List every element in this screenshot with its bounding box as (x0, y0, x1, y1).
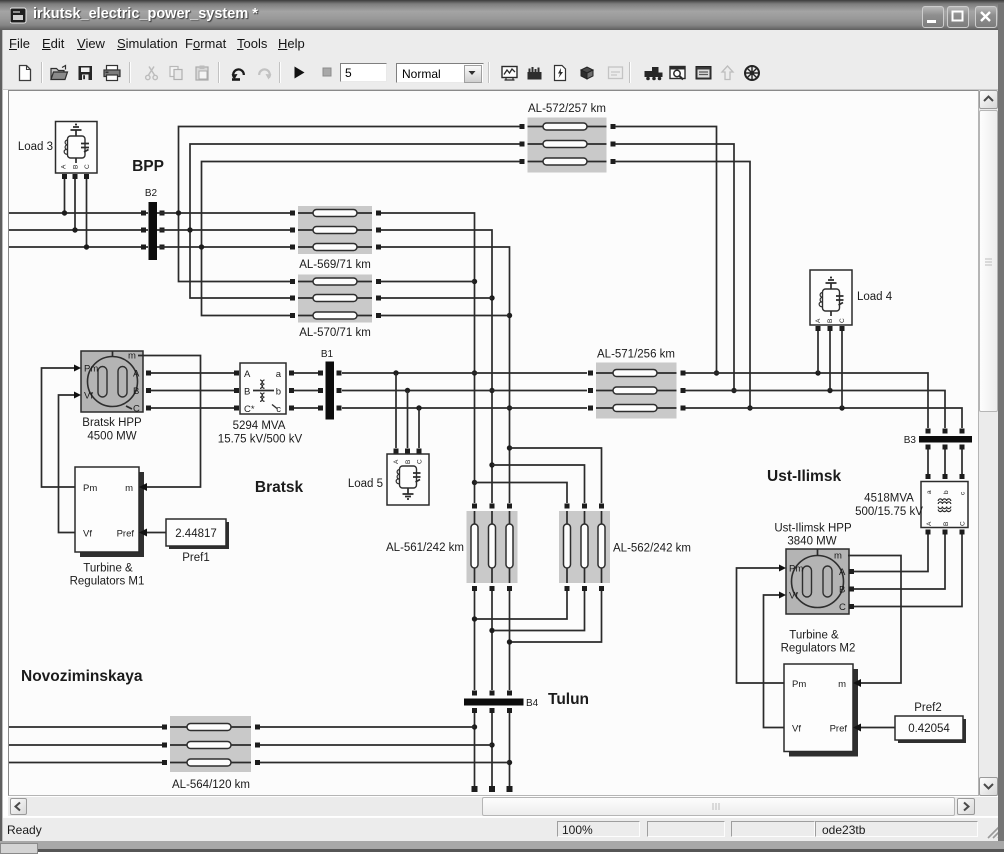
wire AL-570 out phase C (381, 315, 510, 317)
svg-text:C: C (839, 602, 846, 613)
wire B2 to AL-569 phase A (157, 212, 290, 214)
label B1 (321, 349, 334, 360)
bus B4 (464, 691, 524, 714)
transformer 5294 MVA (234, 363, 294, 415)
label Ust-Ilimsk (767, 468, 841, 485)
wire AL-572 out phase A drop (615, 127, 719, 376)
svg-text:2.44817: 2.44817 (175, 528, 217, 540)
svg-text:Vf: Vf (84, 391, 93, 402)
svg-text:5294 MVA: 5294 MVA (233, 420, 286, 432)
bus B3 (919, 429, 972, 450)
label Ust-Ilimsk HPP 3840 MW (774, 523, 852, 548)
svg-text:A: A (393, 459, 400, 464)
svg-text:Load 5: Load 5 (348, 478, 383, 490)
svg-text:C: C (839, 318, 846, 323)
wire Pref1 to turbine M1 (147, 532, 166, 534)
svg-text:15.75 kV/500 kV: 15.75 kV/500 kV (218, 434, 303, 446)
wire B2 to AL-569 phase B (157, 229, 290, 231)
wire gen m to turbine M2 (848, 556, 901, 684)
wire Load4 phase B drop (829, 331, 831, 391)
label Load 5 (348, 478, 383, 490)
wire Load3 phase C drop (84, 179, 89, 250)
wire turbine M2 Vf to gen (764, 595, 785, 728)
label Bratsk (255, 479, 304, 496)
wire AL-562 out phase A join (477, 591, 567, 619)
wire transformer b to B1 (294, 390, 318, 392)
label BPP (132, 158, 164, 175)
svg-text:Vf: Vf (792, 724, 801, 735)
wire AL-562 out phase B join (494, 591, 585, 631)
svg-text:0.42054: 0.42054 (908, 723, 950, 735)
svg-text:m: m (125, 483, 133, 494)
minimize button (922, 6, 944, 28)
svg-text:Regulators M1: Regulators M1 (70, 576, 145, 588)
svg-text:Pm: Pm (83, 483, 97, 494)
svg-text:A: A (61, 164, 68, 169)
label Tulun (548, 691, 589, 708)
svg-text:3840 MW: 3840 MW (787, 536, 836, 548)
wire branch to AL-562 phase C (510, 448, 602, 503)
wire B3 to transformer a (927, 450, 929, 476)
maximize button (947, 6, 969, 28)
vertical scrollbar (979, 90, 998, 796)
svg-text:Vf: Vf (789, 591, 798, 602)
wire riser phase B to AL-572 and AL-570 (187, 144, 521, 298)
svg-text:B: B (73, 165, 80, 169)
svg-text:m: m (834, 551, 842, 562)
horizontal scrollbar (8, 797, 998, 816)
svg-text:Load 3: Load 3 (18, 141, 53, 153)
transmission line block AL-569 (290, 206, 381, 254)
transmission line block AL-572 (520, 118, 616, 173)
svg-text:Ust-Ilimsk: Ust-Ilimsk (767, 468, 841, 485)
transmission line block AL-562 (vertical) (559, 504, 610, 592)
svg-text:m: m (838, 679, 846, 690)
svg-text:A: A (926, 521, 933, 526)
constant block Pref2 (895, 716, 966, 743)
svg-text:Pm: Pm (789, 564, 803, 575)
label Bratsk HPP 4500 MW (82, 417, 142, 443)
label AL-569/71 km (299, 259, 371, 271)
svg-text:BPP: BPP (132, 158, 164, 175)
label AL-562/242 km (613, 543, 691, 555)
svg-text:B2: B2 (145, 188, 158, 199)
label Load 3 (18, 141, 53, 153)
wire Load4 phase A drop (817, 331, 819, 373)
svg-text:a: a (926, 490, 933, 494)
wire Load5 phase B drop (407, 391, 409, 449)
wire transformer a to B1 (294, 372, 318, 374)
wire gen B to transformer (151, 390, 234, 392)
turbine block Turbine & Regulators M1 (75, 467, 147, 557)
label B3 (904, 435, 917, 446)
transformer 4518 MVA (921, 474, 968, 535)
svg-text:Bratsk HPP: Bratsk HPP (82, 417, 142, 429)
load block Load 3 (56, 122, 98, 180)
label Turbine & Regulators M2 (781, 630, 856, 655)
svg-text:a: a (276, 369, 282, 380)
label Novoziminskaya (21, 668, 143, 685)
label Load 4 (857, 291, 893, 303)
wire gen C to transformer (151, 407, 234, 409)
wire branch to AL-562 phase A (475, 483, 568, 504)
wire transformer A to gen A (854, 535, 928, 572)
svg-text:4500 MW: 4500 MW (87, 431, 136, 443)
status bar (3, 817, 1001, 842)
wire AL-561 out phase B to B4 (489, 591, 494, 690)
label AL-561/242 km (386, 542, 464, 554)
wire AL-570 out phase B (381, 297, 492, 299)
svg-text:B: B (943, 522, 950, 526)
svg-text:Ust-Ilimsk HPP: Ust-Ilimsk HPP (774, 523, 852, 535)
svg-text:Novoziminskaya: Novoziminskaya (21, 668, 143, 685)
svg-text:Pref1: Pref1 (182, 552, 210, 564)
wire Pref2 to turbine M2 (861, 727, 895, 729)
wire AL-561 out phase A to B4 (472, 591, 477, 690)
bus B1 (318, 362, 342, 420)
svg-text:Pm: Pm (792, 679, 806, 690)
wire Load3 phase B drop (72, 179, 77, 233)
wire AL-571 out phase B to B3 (686, 388, 946, 428)
wire B1 to AL-571 phase C (342, 405, 587, 410)
svg-text:Pref2: Pref2 (914, 702, 942, 714)
wire AL-561 out phase C to B4 (507, 591, 512, 690)
wire Load5 phase A drop (395, 373, 397, 448)
svg-text:AL-570/71 km: AL-570/71 km (299, 327, 371, 339)
window title bar (0, 0, 1004, 30)
label AL-572/257 km (528, 103, 606, 115)
wire turbine M2 Pm to gen (737, 568, 785, 683)
wire B1 to AL-571 phase B (342, 388, 587, 393)
svg-text:m: m (128, 351, 136, 362)
wire AL-571 out phase C to B3 (686, 405, 963, 428)
wire gen m to turbine M1 (138, 356, 201, 488)
svg-text:A: A (839, 567, 846, 578)
wire transformer c to B1 (294, 407, 318, 409)
svg-text:B3: B3 (904, 435, 917, 446)
svg-text:b: b (276, 387, 281, 398)
svg-text:b: b (943, 490, 950, 494)
wire B2 phase C from left edge (9, 246, 148, 248)
wire AL-564 out phase C (260, 762, 510, 764)
svg-text:Load 4: Load 4 (857, 291, 893, 303)
svg-text:AL-569/71 km: AL-569/71 km (299, 259, 371, 271)
label B2 (145, 188, 158, 199)
wire B3 to transformer c (961, 450, 963, 476)
bus B2 (141, 202, 165, 260)
svg-text:AL-561/242 km: AL-561/242 km (386, 542, 464, 554)
svg-text:C*: C* (244, 404, 255, 415)
load block Load 4 (810, 270, 852, 331)
label 5294 MVA 15.75 kV/500 kV (218, 420, 303, 446)
label B4 (526, 698, 539, 709)
label AL-564/120 km (172, 779, 250, 791)
svg-text:Turbine &: Turbine & (83, 563, 133, 575)
wire B4 down phase A (472, 713, 478, 792)
wire B4 down phase C (507, 713, 513, 792)
svg-text:Turbine &: Turbine & (789, 630, 839, 642)
wire Novoziminskaya phase C (9, 762, 164, 764)
label Pref1 (182, 552, 210, 564)
wire B1 to AL-571 phase A (342, 370, 587, 375)
wire B2 phase A from left edge (9, 212, 148, 214)
wire Novoziminskaya phase B (9, 744, 164, 746)
wire AL-571 out phase A to B3 (686, 370, 929, 428)
svg-text:Pref: Pref (830, 724, 848, 735)
wire B2 phase B from left edge (9, 229, 148, 231)
svg-text:B: B (839, 585, 845, 596)
generator Bratsk HPP (74, 351, 151, 415)
constant block Pref1 (166, 519, 229, 549)
svg-text:c: c (276, 404, 281, 415)
wire gen A to transformer (151, 372, 234, 374)
wire transformer B to gen B (854, 535, 945, 590)
label AL-571/256 km (597, 349, 675, 361)
svg-text:B: B (244, 387, 250, 398)
wire Load4 phase C drop (841, 331, 843, 408)
wire AL-569 out phase A to Tulun riser (381, 213, 477, 503)
svg-text:A: A (815, 318, 822, 323)
label 4518MVA 500/15.75 kV (855, 493, 923, 519)
svg-text:AL-572/257 km: AL-572/257 km (528, 103, 606, 115)
transmission line block AL-564 (162, 716, 260, 772)
svg-text:Vf: Vf (83, 529, 92, 540)
transmission line block AL-570 (290, 275, 381, 323)
window frame edges (0, 30, 3, 841)
wire AL-564 out phase A (260, 726, 475, 728)
transmission line block AL-561 (vertical) (467, 504, 518, 592)
close button (975, 6, 997, 28)
toolbar (3, 56, 1001, 90)
label AL-570/71 km (299, 327, 371, 339)
wire AL-569 out phase B to Tulun riser (381, 230, 495, 503)
label Turbine & Regulators M1 (70, 563, 145, 588)
svg-text:C: C (417, 459, 424, 464)
svg-text:B1: B1 (321, 349, 334, 360)
svg-text:AL-571/256 km: AL-571/256 km (597, 349, 675, 361)
turbine block Turbine & Regulators M2 (784, 664, 861, 757)
wire Load3 phase A drop (62, 179, 67, 216)
svg-text:B: B (827, 319, 834, 323)
svg-text:Tulun: Tulun (548, 691, 589, 708)
svg-text:C: C (960, 521, 967, 526)
svg-text:C: C (84, 164, 91, 169)
svg-text:AL-564/120 km: AL-564/120 km (172, 779, 250, 791)
svg-text:B: B (133, 386, 139, 397)
wire riser phase C to AL-572 and AL-570 (199, 162, 521, 316)
wire turbine M1 Pm to gen (42, 368, 76, 487)
svg-text:Bratsk: Bratsk (255, 479, 304, 496)
wire Load5 phase C drop (418, 408, 420, 448)
svg-text:B4: B4 (526, 698, 539, 709)
label Pref2 (914, 702, 942, 714)
svg-text:B: B (405, 460, 412, 464)
transmission line block AL-571 (588, 363, 686, 419)
svg-text:Pref: Pref (117, 529, 135, 540)
svg-text:Pm: Pm (84, 364, 98, 375)
svg-text:C: C (133, 404, 140, 415)
wire AL-572 out phase B drop (615, 144, 737, 393)
svg-text:4518MVA: 4518MVA (864, 493, 914, 505)
load block Load 5 (387, 449, 429, 506)
wire AL-564 out phase B (260, 744, 492, 746)
wire B3 to transformer b (944, 450, 946, 476)
wire B4 down phase B (489, 713, 495, 792)
model canvas (8, 90, 979, 796)
menu bar (3, 30, 1001, 56)
wire transformer C to gen C (854, 535, 962, 607)
wire AL-572 out phase C drop (615, 162, 753, 411)
svg-text:AL-562/242 km: AL-562/242 km (613, 543, 691, 555)
wire turbine M1 Vf to gen (59, 395, 76, 533)
svg-text:A: A (133, 369, 140, 380)
wire Novoziminskaya phase A (9, 726, 164, 728)
wire B2 to AL-569 phase C (157, 246, 290, 248)
svg-text:A: A (244, 369, 251, 380)
wire riser phase A to AL-572 and AL-570 (176, 127, 521, 282)
wire AL-570 out phase A (381, 281, 475, 283)
wire branch to AL-562 phase B (492, 465, 585, 503)
svg-text:Regulators M2: Regulators M2 (781, 643, 856, 655)
wire AL-569 out phase C to Tulun riser (381, 247, 512, 503)
svg-text:500/15.75 kV: 500/15.75 kV (855, 506, 923, 518)
generator Ust-Ilimsk HPP (779, 549, 854, 614)
wire AL-562 out phase C join (512, 591, 602, 642)
